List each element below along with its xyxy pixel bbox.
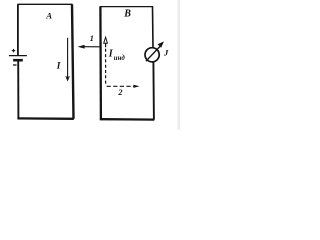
svg-text:1: 1 bbox=[90, 34, 94, 43]
svg-text:2: 2 bbox=[117, 88, 122, 97]
svg-text:инд: инд bbox=[114, 55, 126, 62]
svg-text:I: I bbox=[56, 62, 61, 72]
svg-text:A: A bbox=[45, 11, 52, 21]
svg-text:B: B bbox=[123, 9, 131, 20]
svg-text:J: J bbox=[163, 48, 169, 58]
